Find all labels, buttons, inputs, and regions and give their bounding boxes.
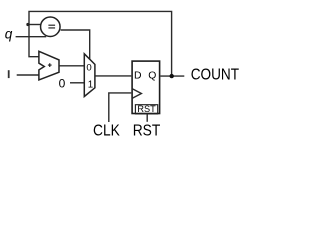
svg-text:RST: RST [137, 104, 156, 114]
wire Q output to COUNT [161, 75, 185, 77]
adder A1 (ALU shape) [39, 51, 59, 80]
wire mux output to D input [95, 75, 131, 77]
svg-text:D: D [134, 71, 142, 82]
flip-flop U2 box [132, 61, 160, 113]
svg-text:COUNT: COUNT [191, 66, 240, 83]
wire comparator output to mux select [61, 30, 90, 60]
junction dot left [26, 23, 29, 26]
svg-text:RST: RST [133, 123, 161, 140]
svg-text:Q: Q [148, 71, 156, 82]
svg-text:CLK: CLK [93, 122, 120, 139]
plus sign inside adder [48, 63, 52, 67]
wire feedback loop: COUNT node up, across top, down left, into adder input A [29, 11, 172, 76]
wire q to comparator lower input [16, 36, 47, 38]
wire constant 0 to mux input 1 [70, 82, 84, 84]
svg-text:0: 0 [59, 76, 66, 90]
clock triangle [132, 89, 141, 98]
svg-text:1: 1 [88, 80, 93, 91]
wire I to adder input B [17, 74, 39, 76]
svg-text:0: 0 [86, 63, 91, 74]
svg-text:q: q [5, 27, 13, 42]
comparator U1 [41, 17, 61, 37]
equals sign inside comparator [48, 25, 55, 28]
RST inner box [135, 105, 157, 114]
junction dot COUNT node [170, 74, 174, 78]
wire adder output to mux input 0 [59, 65, 84, 67]
label I [8, 70, 10, 78]
node junction to comparator upper input [28, 24, 40, 26]
wire RST label to RST pin [146, 114, 148, 122]
wire CLK to clock input [109, 93, 132, 122]
mux M1 (trapezoid) [84, 54, 95, 97]
